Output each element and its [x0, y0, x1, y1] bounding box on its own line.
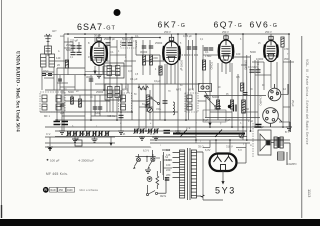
svg-text:T: T	[243, 142, 245, 146]
svg-text:70: 70	[168, 91, 171, 93]
svg-text:5000 pF: 5000 pF	[122, 37, 132, 41]
svg-text:25000: 25000	[155, 41, 163, 45]
svg-text:300 Ω: 300 Ω	[86, 75, 93, 79]
svg-text:0,05 µF: 0,05 µF	[183, 34, 192, 38]
svg-text:100 µF: 100 µF	[50, 158, 60, 162]
svg-text:5 V: 5 V	[238, 148, 242, 152]
svg-text:O.M.: O.M.	[120, 132, 126, 136]
svg-text:5000: 5000	[250, 50, 256, 54]
svg-text:220: 220	[166, 168, 171, 172]
svg-text:OSC: OSC	[105, 61, 110, 63]
svg-text:20: 20	[57, 63, 60, 67]
svg-text:250: 250	[268, 57, 273, 61]
svg-text:6V6-G: 6V6-G	[250, 19, 279, 29]
svg-text:VOL. III - Parte Unica - Schem: VOL. III - Parte Unica - Schemi del Radi…	[305, 59, 309, 145]
svg-text:B.T.: B.T.	[285, 130, 290, 134]
svg-text:m: m	[250, 145, 252, 147]
svg-text:0,5: 0,5	[236, 75, 240, 79]
svg-text:h: h	[240, 123, 242, 125]
svg-text:0,5: 0,5	[214, 107, 218, 111]
svg-text:15000: 15000	[88, 55, 96, 59]
svg-text:0,1: 0,1	[200, 39, 204, 41]
svg-text:160: 160	[166, 163, 171, 167]
svg-text:L: L	[150, 145, 152, 149]
svg-text:ANT: ANT	[52, 30, 57, 33]
svg-text:d: d	[120, 123, 122, 125]
svg-text:TONO: TONO	[210, 62, 214, 69]
svg-text:Kc/s: Kc/s	[95, 111, 101, 115]
svg-text:50000: 50000	[66, 48, 74, 52]
svg-text:e: e	[150, 123, 152, 125]
svg-text:MF 1: MF 1	[44, 114, 50, 118]
svg-text:C.V.: C.V.	[46, 132, 51, 136]
svg-text:5: 5	[180, 43, 182, 45]
svg-text:35 Ω: 35 Ω	[198, 144, 204, 148]
svg-text:6: 6	[240, 39, 242, 41]
svg-text:99: 99	[250, 89, 253, 91]
svg-text:1 µF: 1 µF	[248, 119, 254, 123]
svg-text:80: 80	[180, 85, 183, 87]
svg-text:Mia: Mia	[147, 176, 152, 180]
svg-text:0,1 µF: 0,1 µF	[256, 62, 260, 70]
svg-text:16µF: 16µF	[258, 125, 264, 129]
svg-text:MF3: MF3	[176, 88, 182, 92]
svg-text:5000: 5000	[68, 90, 74, 94]
svg-text:4: 4	[155, 69, 157, 71]
svg-text:5Y3: 5Y3	[215, 185, 236, 195]
svg-text:0,1µF: 0,1µF	[154, 79, 161, 83]
svg-text:98: 98	[262, 85, 265, 87]
svg-text:90: 90	[218, 87, 221, 89]
svg-text:PAD: PAD	[80, 132, 85, 136]
svg-text:140: 140	[56, 56, 61, 60]
svg-text:✛ 25000 µF: ✛ 25000 µF	[78, 158, 94, 162]
svg-text:50: 50	[134, 94, 137, 96]
svg-text:100: 100	[236, 52, 241, 56]
svg-text:30000: 30000	[140, 50, 148, 54]
svg-text:50000: 50000	[212, 95, 220, 99]
svg-text:25000: 25000	[96, 90, 104, 94]
svg-text:MF 465 Kc/s.: MF 465 Kc/s.	[46, 172, 68, 176]
svg-text:i: i	[160, 145, 161, 147]
svg-text:50: 50	[246, 107, 249, 111]
svg-text:1: 1	[118, 51, 120, 53]
svg-text:6Q7-G: 6Q7-G	[214, 19, 244, 29]
svg-text:C.V.: C.V.	[186, 126, 191, 130]
svg-text:B: B	[88, 43, 90, 45]
svg-text:UNDA RADIO - Mod. Sex Unda 5: UNDA RADIO - Mod. Sex Unda 56/4	[15, 51, 20, 132]
svg-text:6,3V: 6,3V	[205, 148, 211, 152]
svg-text:310 V: 310 V	[226, 144, 233, 148]
svg-text:VOL: VOL	[156, 107, 162, 111]
svg-text:S1: S1	[165, 155, 169, 159]
svg-text:0,1: 0,1	[135, 34, 139, 38]
svg-text:20: 20	[76, 91, 79, 93]
svg-text:0,1: 0,1	[110, 50, 114, 54]
svg-text:OSC.: OSC.	[43, 69, 50, 73]
svg-text:RAD: RAD	[51, 189, 56, 192]
svg-text:456: 456	[59, 189, 64, 192]
svg-text:490: 490	[222, 58, 227, 62]
svg-text:12: 12	[283, 87, 286, 91]
svg-text:250 V: 250 V	[265, 30, 272, 34]
svg-text:0,1 µF: 0,1 µF	[130, 77, 138, 81]
svg-text:n: n	[270, 155, 272, 157]
svg-text:40: 40	[108, 101, 111, 103]
svg-text:CAMPO: CAMPO	[259, 96, 263, 106]
svg-text:470: 470	[284, 47, 289, 51]
svg-text:1 MΩ: 1 MΩ	[205, 54, 211, 58]
svg-text:0,5: 0,5	[135, 74, 139, 76]
svg-text:50000 µF: 50000 µF	[180, 60, 184, 71]
svg-text:25 µF: 25 µF	[291, 100, 295, 107]
svg-text:RETE: RETE	[160, 196, 167, 198]
svg-text:6,3 V: 6,3 V	[143, 148, 149, 152]
svg-text:f: f	[196, 123, 197, 125]
svg-text:25000: 25000	[66, 43, 74, 47]
svg-text:6SA7-GT: 6SA7-GT	[77, 22, 116, 32]
svg-text:0,1: 0,1	[70, 57, 74, 59]
svg-text:250 V: 250 V	[164, 30, 171, 34]
svg-text:280: 280	[166, 173, 171, 177]
svg-text:110: 110	[166, 148, 171, 152]
svg-text:250 V: 250 V	[222, 30, 229, 34]
svg-text:1000: 1000	[152, 56, 158, 60]
svg-text:8 µF: 8 µF	[203, 118, 209, 122]
svg-text:*: *	[100, 36, 101, 38]
svg-text:465: 465	[60, 111, 65, 115]
svg-text:0,1: 0,1	[205, 50, 209, 54]
svg-text:MF 3: MF 3	[188, 88, 194, 92]
svg-text:1113: 1113	[307, 189, 312, 198]
svg-text:30: 30	[90, 97, 93, 99]
svg-text:25: 25	[258, 43, 261, 45]
svg-text:O.C.: O.C.	[150, 132, 156, 136]
svg-text:2: 2	[125, 57, 127, 59]
svg-text:10000: 10000	[256, 57, 264, 61]
svg-text:6K7-G: 6K7-G	[158, 19, 187, 29]
svg-text:g: g	[220, 123, 222, 125]
svg-text:IMΩ: IMΩ	[110, 69, 115, 73]
svg-text:Mod. a richiesta: Mod. a richiesta	[80, 188, 99, 192]
svg-text:CAMPO: CAMPO	[287, 162, 297, 166]
svg-text:A: A	[58, 50, 60, 53]
svg-text:Ant.: Ant.	[60, 34, 65, 38]
svg-text:350: 350	[284, 57, 289, 61]
svg-text:1949: 1949	[67, 189, 73, 192]
svg-text:0,3: 0,3	[128, 69, 132, 73]
svg-text:0,5 MΩ: 0,5 MΩ	[248, 65, 256, 69]
